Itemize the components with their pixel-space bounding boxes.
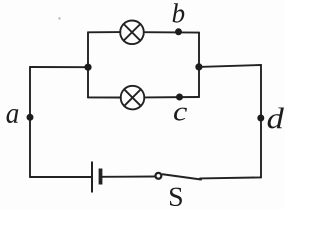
wire right bus of parallel branches (198, 33, 200, 97)
wire left corner to left junction (30, 66, 88, 68)
junction left (84, 64, 91, 71)
wire top branch left segment (88, 31, 120, 33)
node d dot (257, 115, 264, 122)
label c (174, 108, 187, 121)
label d (268, 108, 284, 129)
wire left vertical (a side) (29, 67, 31, 177)
switch S pivot (155, 173, 161, 179)
label S (170, 188, 182, 206)
node c dot (176, 94, 183, 101)
label a (7, 109, 19, 123)
battery long plate (positive) (91, 162, 93, 193)
wire left bus of parallel branches (87, 32, 89, 97)
battery short plate (negative) (99, 169, 103, 185)
node a dot (27, 114, 34, 121)
label b (173, 3, 185, 22)
junction right (195, 63, 202, 70)
lamp L1 (top) (120, 21, 144, 45)
wire right junction to right wire (199, 65, 261, 67)
wire bottom branch left segment (88, 96, 121, 98)
switch S blade (163, 174, 201, 179)
scan speck (58, 17, 60, 19)
lamp L2 (bottom) (121, 86, 145, 110)
node b dot (175, 28, 182, 35)
wire right vertical (d side) (260, 65, 262, 177)
wire battery to switch (101, 176, 155, 178)
wire bottom left to battery (30, 176, 91, 178)
wire top branch right segment (144, 31, 199, 33)
wire bottom branch right segment (144, 96, 199, 98)
wire switch to bottom right corner (200, 177, 261, 178)
